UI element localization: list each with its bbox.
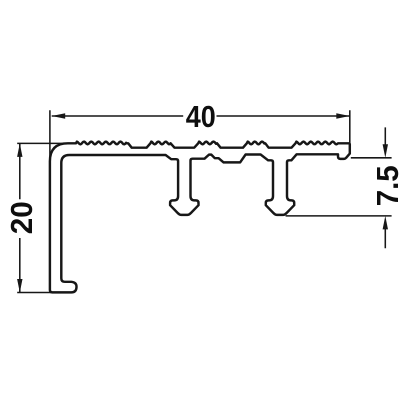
svg-text:20: 20 bbox=[4, 201, 39, 234]
svg-text:40: 40 bbox=[186, 99, 216, 134]
svg-text:7.5: 7.5 bbox=[370, 165, 405, 206]
